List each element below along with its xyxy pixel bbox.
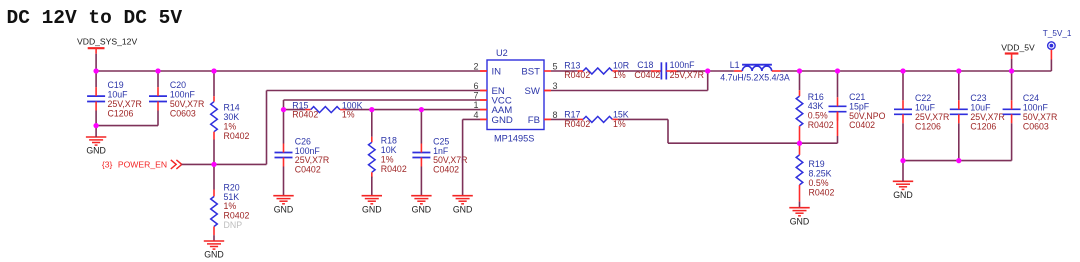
power symbol VDD_SYS_12V [77, 37, 137, 54]
svg-text:C0603: C0603 [1023, 122, 1049, 132]
resistor R19 [796, 143, 834, 208]
wire SW [544, 71, 708, 91]
power symbol VDD_5V [1001, 43, 1035, 59]
resistor R13 [551, 60, 629, 80]
resistor R16 [796, 71, 834, 143]
junction node GND at C22 bottom [900, 158, 905, 163]
svg-text:R20: R20 [224, 182, 240, 192]
svg-text:GND: GND [362, 204, 382, 214]
svg-text:VDD_SYS_12V: VDD_SYS_12V [77, 37, 137, 47]
ground below R18 [362, 196, 382, 215]
title [7, 7, 183, 29]
wire 5V rail [781, 70, 1052, 72]
svg-text:6: 6 [473, 81, 478, 91]
junction node VDD_5V at R16 [797, 68, 802, 73]
svg-text:R0402: R0402 [808, 120, 834, 130]
svg-text:100nF: 100nF [1023, 103, 1049, 113]
junction node VDD_5V at C23 [956, 68, 961, 73]
svg-text:T_5V_1: T_5V_1 [1043, 29, 1072, 38]
wire gnd stub C19 [95, 126, 97, 137]
svg-text:GND: GND [893, 190, 913, 200]
svg-text:R13: R13 [564, 60, 580, 70]
capacitor C19 [87, 71, 142, 126]
wire GND pin 4 [463, 119, 487, 195]
svg-text:R0402: R0402 [381, 164, 407, 174]
svg-text:25V,X7R: 25V,X7R [670, 70, 704, 80]
IC U2 MP1495S buck regulator [473, 48, 557, 144]
svg-text:DNP: DNP [224, 220, 243, 230]
resistor R15 [284, 100, 363, 119]
svg-text:GND: GND [492, 115, 513, 126]
svg-text:GND: GND [453, 204, 473, 214]
off-page connector POWER_EN [102, 160, 182, 170]
wire gnd stub C22 [902, 161, 904, 182]
svg-text:R0402: R0402 [292, 110, 318, 120]
svg-text:1%: 1% [342, 110, 355, 120]
junction node POWER_EN at R14/R20 [211, 162, 216, 167]
wire FB net [618, 119, 838, 143]
ground below C25 [411, 196, 431, 215]
junction node VCC/R15/C26 [281, 107, 286, 112]
svg-text:10uF: 10uF [970, 103, 991, 113]
capacitor C20 [149, 71, 204, 126]
svg-text:U2: U2 [496, 48, 508, 58]
wire C19-C20 bottom [96, 125, 158, 127]
ground below R20 [204, 241, 224, 260]
junction node VDD_5V at C24 [1009, 68, 1014, 73]
svg-text:R0402: R0402 [224, 131, 250, 141]
resistor R17 [544, 109, 629, 129]
wire AAM to pin 1 [346, 109, 488, 111]
junction node GND at C23 bottom [956, 158, 961, 163]
junction node VDD_5V at C22 [900, 68, 905, 73]
svg-text:8.25K: 8.25K [809, 168, 832, 178]
capacitor C23 [950, 71, 1005, 161]
svg-text:R17: R17 [564, 109, 580, 119]
svg-text:10R: 10R [613, 60, 629, 70]
junction node FB at R16/R19 [797, 141, 802, 146]
inductor L1 [708, 60, 790, 82]
svg-text:10uF: 10uF [915, 103, 936, 113]
svg-text:{3}: {3} [102, 160, 113, 170]
svg-text:GND: GND [204, 250, 224, 260]
svg-text:C0402: C0402 [433, 165, 459, 175]
svg-text:R0402: R0402 [809, 187, 835, 197]
svg-text:MP1495S: MP1495S [494, 134, 534, 144]
wire POWER_EN to EN [182, 91, 488, 165]
junction node AAM at C25 [419, 107, 424, 112]
ground below C26 [273, 196, 293, 215]
test point T_5V_1 [1043, 29, 1072, 71]
svg-text:R0402: R0402 [564, 70, 590, 80]
wire 12V rail to pin IN [96, 70, 487, 72]
junction node VDD_SYS_12V at R14 [211, 68, 216, 73]
svg-text:C0402: C0402 [634, 70, 660, 80]
svg-text:2: 2 [473, 61, 478, 71]
junction node VDD_SYS_12V at C19 [93, 68, 98, 73]
svg-text:C0402: C0402 [295, 165, 321, 175]
wire output gnd rail [903, 160, 1012, 162]
capacitor C18 [618, 60, 708, 80]
capacitor C26 [275, 110, 330, 196]
svg-text:43K: 43K [808, 101, 824, 111]
svg-text:GND: GND [274, 204, 294, 214]
svg-text:DC 12V to DC 5V: DC 12V to DC 5V [7, 7, 183, 29]
ground below C19 [86, 137, 106, 156]
wire VDD_5V stub [1011, 59, 1013, 71]
svg-text:4.7uH/5.2X5.4/3A: 4.7uH/5.2X5.4/3A [720, 73, 790, 83]
svg-text:C1206: C1206 [915, 122, 941, 132]
svg-text:1%: 1% [224, 201, 237, 211]
capacitor C21 [829, 71, 886, 143]
ground below U2 pin 4 [452, 196, 472, 215]
resistor R14 [211, 71, 250, 164]
svg-text:C1206: C1206 [108, 108, 134, 118]
capacitor C25 [412, 110, 467, 196]
resistor R20 [211, 164, 250, 241]
resistor R18 [369, 110, 407, 196]
svg-text:10uF: 10uF [108, 89, 129, 99]
junction node VDD_SYS_12V at C20 [155, 68, 160, 73]
svg-text:100nF: 100nF [670, 60, 696, 70]
svg-text:C0603: C0603 [170, 108, 196, 118]
svg-text:IN: IN [492, 67, 502, 78]
svg-text:C0402: C0402 [849, 120, 875, 130]
svg-text:POWER_EN: POWER_EN [118, 160, 167, 170]
junction node AAM at R18 [369, 107, 374, 112]
svg-text:SW: SW [525, 86, 541, 97]
svg-text:1%: 1% [613, 119, 626, 129]
svg-text:BST: BST [521, 67, 540, 78]
junction node SW at C18/L1 [705, 68, 710, 73]
svg-text:30K: 30K [224, 112, 240, 122]
svg-text:VDD_5V: VDD_5V [1001, 43, 1035, 53]
svg-text:GND: GND [790, 216, 810, 226]
capacitor C24 [1003, 71, 1058, 161]
svg-text:3: 3 [553, 81, 558, 91]
svg-text:C1206: C1206 [970, 122, 996, 132]
svg-text:L1: L1 [730, 60, 740, 70]
svg-text:1: 1 [473, 100, 478, 110]
svg-text:C18: C18 [637, 60, 653, 70]
ground below C22 [893, 181, 913, 200]
svg-text:GND: GND [86, 146, 106, 156]
wire VDD_SYS_12V stub [95, 54, 97, 71]
svg-text:10K: 10K [381, 145, 397, 155]
svg-text:15pF: 15pF [849, 101, 870, 111]
wire VCC [284, 100, 488, 110]
junction node GND at C19/C20 bottom [93, 123, 98, 128]
svg-text:100nF: 100nF [170, 89, 196, 99]
junction node VDD_5V at C21 [835, 68, 840, 73]
svg-text:5: 5 [553, 61, 558, 71]
svg-text:7: 7 [473, 90, 478, 100]
svg-text:R0402: R0402 [564, 119, 590, 129]
svg-text:R0402: R0402 [224, 211, 250, 221]
svg-text:4: 4 [473, 110, 478, 120]
svg-text:15K: 15K [613, 109, 629, 119]
svg-text:8: 8 [553, 110, 558, 120]
ground below R19 [789, 208, 809, 227]
capacitor C22 [894, 71, 949, 161]
svg-text:GND: GND [412, 204, 432, 214]
svg-text:FB: FB [528, 115, 540, 126]
